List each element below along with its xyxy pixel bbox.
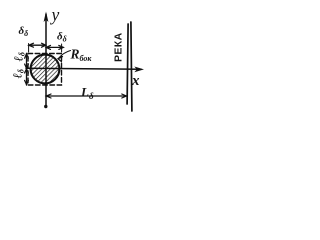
svg-text:x: x bbox=[131, 73, 140, 89]
svg-text:ℓδ: ℓδ bbox=[10, 69, 25, 78]
svg-text:ℓδ: ℓδ bbox=[11, 52, 26, 61]
svg-text:y: y bbox=[50, 5, 60, 25]
svg-text:δδ: δδ bbox=[57, 31, 67, 44]
svg-text:Rбок: Rбок bbox=[70, 47, 93, 64]
svg-text:Lδ: Lδ bbox=[80, 85, 94, 102]
svg-text:δδ: δδ bbox=[19, 25, 29, 38]
svg-text:РЕКА: РЕКА bbox=[113, 32, 125, 62]
